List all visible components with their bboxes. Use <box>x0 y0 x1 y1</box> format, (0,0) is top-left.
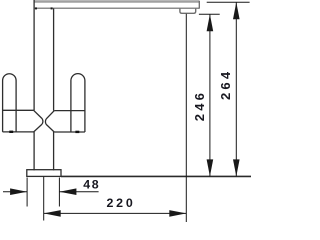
riser left edge lower <box>33 132 35 170</box>
right lever bottom edge <box>54 131 85 133</box>
riser right edge lower <box>53 132 55 170</box>
dim 264 extension line <box>207 1 250 3</box>
faucet spout right end <box>198 1 200 9</box>
dim 48 right arrow <box>59 188 76 195</box>
spout-riser junction dot left <box>35 7 37 9</box>
svg-text:48: 48 <box>83 178 100 192</box>
dim 48 left extension line <box>26 178 28 207</box>
dim 48 right extension line <box>58 178 60 207</box>
left lever bottom edge <box>3 131 34 133</box>
left lever bottom taper <box>34 124 42 132</box>
aerator outlet <box>180 8 196 13</box>
dim 220 right arrow <box>169 210 186 217</box>
right lever paddle <box>71 74 85 132</box>
left lever tip <box>41 119 44 125</box>
dim 48 right leader <box>59 191 98 193</box>
riser right edge upper <box>53 8 55 110</box>
faucet spout top edge <box>34 0 199 2</box>
spout tip extension line <box>185 14 187 222</box>
dim 246 line <box>209 14 211 176</box>
svg-text:220: 220 <box>106 196 135 210</box>
dim 48 left arrow <box>10 188 27 195</box>
dim 264 bottom arrow <box>233 159 240 176</box>
right lever bottom taper <box>46 124 54 132</box>
countertop line <box>61 175 251 177</box>
dim 264 line <box>235 2 237 176</box>
riser left edge upper <box>33 0 35 110</box>
dim 48 left leader <box>3 191 27 193</box>
right lever tip <box>44 119 47 125</box>
left lever joint line <box>3 109 34 111</box>
dim 246 extension line <box>199 13 220 15</box>
spout-riser junction dot right <box>51 7 53 9</box>
faucet spout bottom edge <box>34 7 199 9</box>
dim 246 bottom arrow <box>207 159 214 176</box>
left lever top taper <box>34 110 43 118</box>
dim 264 top arrow <box>233 2 240 19</box>
left lever base tick <box>9 131 13 133</box>
right lever joint line <box>54 110 85 112</box>
right lever base tick <box>75 131 79 133</box>
left lever paddle <box>3 74 17 132</box>
dim 246 top arrow <box>207 14 214 31</box>
base plate <box>27 170 61 177</box>
svg-text:246: 246 <box>192 90 207 121</box>
dim 220 line <box>44 212 187 214</box>
right lever top taper <box>46 111 54 119</box>
dim 220 left arrow <box>44 210 61 217</box>
riser centerline <box>43 177 45 221</box>
svg-text:264: 264 <box>218 69 233 100</box>
